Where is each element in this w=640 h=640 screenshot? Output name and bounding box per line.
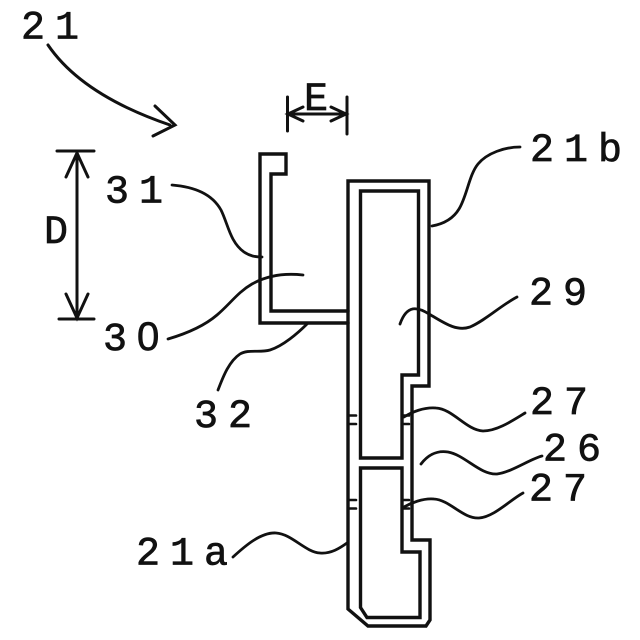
serration ticks 27 upper-left wall xyxy=(348,416,356,425)
leader line 27 upper xyxy=(404,408,525,431)
leader line 21a xyxy=(233,533,347,557)
serration ticks 27 upper-right wall xyxy=(402,416,409,425)
svg-text:26: 26 xyxy=(543,429,611,474)
svg-text:21a: 21a xyxy=(136,533,238,578)
svg-text:27: 27 xyxy=(530,382,598,427)
label 21 pointer arrowhead xyxy=(153,106,175,136)
leader line 30 xyxy=(168,274,303,339)
dimension E extension bars xyxy=(288,97,348,134)
svg-text:E: E xyxy=(304,78,338,123)
svg-text:30: 30 xyxy=(103,315,169,363)
dimension E arrowhead left xyxy=(288,107,303,121)
label 21 pointer arc xyxy=(48,45,170,125)
svg-text:32: 32 xyxy=(194,395,262,440)
leader line 32 xyxy=(218,324,307,390)
leader line 31 xyxy=(172,185,262,257)
dimension D arrowhead up xyxy=(66,153,88,177)
leader line 27 lower xyxy=(404,493,523,518)
serration ticks 27 lower-left wall xyxy=(348,500,356,509)
svg-text:27: 27 xyxy=(529,469,597,514)
svg-text:29: 29 xyxy=(529,273,597,318)
dimension E arrowhead right xyxy=(331,107,346,121)
leader line 26 xyxy=(421,452,542,474)
serration ticks 27 lower-right wall xyxy=(402,500,409,509)
dimension D extension bars xyxy=(57,151,94,319)
leader line 29 xyxy=(400,297,517,328)
frame outer contour (right hollow member 26 with steps and bottom foot) xyxy=(348,181,430,626)
leader line 21b xyxy=(432,147,520,226)
dimension E arrow line xyxy=(288,113,346,116)
dimension D arrow shaft xyxy=(76,154,79,317)
lower cavity inner contour xyxy=(361,468,421,618)
dimension D arrowhead down xyxy=(66,294,88,318)
hook outer contour (parts 30/31/32, left C-shaped holder with top tab) xyxy=(260,154,348,323)
svg-text:D: D xyxy=(44,211,78,256)
svg-text:21b: 21b xyxy=(530,129,632,174)
svg-text:31: 31 xyxy=(105,171,173,216)
svg-text:21: 21 xyxy=(21,7,89,52)
upper cavity 29 inner contour xyxy=(361,191,419,458)
